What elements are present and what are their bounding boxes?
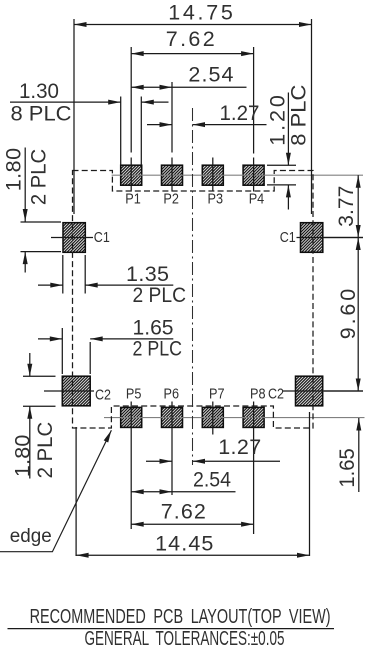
svg-text:P8: P8	[250, 387, 266, 403]
dimension line 1.80 top	[24, 148, 26, 222]
svg-text:9.60: 9.60	[336, 289, 360, 339]
svg-text:8 PLC: 8 PLC	[286, 85, 310, 146]
dimension tail 1.65 left	[38, 338, 62, 340]
PCB cutout edge outline (dashed)	[73, 171, 314, 429]
wire C1 left pad centerline tick	[51, 237, 93, 239]
extension tick C1 right center	[324, 237, 363, 239]
pad C1 left	[63, 223, 85, 253]
arrowhead 1.35 right (outside)	[85, 283, 98, 288]
svg-text:P1: P1	[125, 192, 141, 208]
svg-text:3.77: 3.77	[334, 186, 358, 227]
pad C2 right	[296, 376, 323, 406]
dimension line 7.62 top	[131, 53, 253, 55]
arrowhead 2.54 top right	[160, 85, 173, 90]
wire top pad row centerline y=175	[112, 174, 363, 176]
pad P6	[162, 407, 183, 427]
svg-text:14.75: 14.75	[168, 0, 233, 24]
pad P5	[121, 407, 142, 427]
arrowhead 1.27 bottom right (outside)	[193, 459, 206, 464]
extension line left board edge (14.75)	[73, 19, 75, 214]
wire pin P3 vertical centerline	[212, 158, 214, 192]
extension line C2 left center (14.45)	[75, 427, 77, 556]
dimension line 14.45	[76, 554, 309, 556]
arrowhead 14.45 right	[297, 553, 310, 558]
svg-text:P7: P7	[209, 387, 225, 403]
leader line for edge label	[0, 430, 111, 552]
dimension line 3.77	[357, 175, 359, 237]
arrowhead 7.62 top right	[241, 51, 254, 56]
arrowhead 1.20 lower (outside)	[286, 185, 291, 198]
svg-text:P4: P4	[249, 192, 265, 208]
svg-text:2.54: 2.54	[188, 63, 233, 87]
svg-text:1.65: 1.65	[335, 448, 359, 487]
extension tick pad bottom edge (1.20)	[267, 184, 296, 186]
pad C2 left	[62, 376, 90, 406]
extension line P1 left edge	[120, 97, 122, 166]
svg-text:1.27: 1.27	[218, 435, 261, 459]
svg-text:edge: edge	[10, 526, 52, 547]
arrowhead 2.54 bottom right	[160, 489, 173, 494]
svg-text:2.54: 2.54	[193, 468, 231, 492]
svg-text:C2: C2	[95, 388, 111, 404]
wire C2 left pad centerline tick	[44, 390, 94, 392]
svg-text:2 PLC: 2 PLC	[133, 283, 187, 307]
svg-text:2 PLC: 2 PLC	[133, 337, 183, 361]
arrowhead 7.62 bottom left	[131, 522, 144, 527]
arrowhead 1.35 left (outside)	[50, 283, 63, 288]
svg-text:2 PLC: 2 PLC	[26, 149, 50, 205]
svg-text:C1: C1	[94, 230, 110, 246]
svg-text:GENERAL TOLERANCES:±0.05: GENERAL TOLERANCES:±0.05	[85, 628, 285, 650]
extension line C2 right edge (above)	[89, 342, 91, 374]
arrowhead 14.75 left	[74, 22, 87, 27]
arrowhead 14.45 left	[76, 553, 89, 558]
svg-text:1.80: 1.80	[10, 435, 34, 478]
svg-text:P6: P6	[164, 387, 180, 403]
extension tick C2 right center	[324, 390, 363, 392]
extension line C1 left edge (below)	[62, 255, 64, 294]
extension line P1 right edge	[140, 97, 142, 166]
svg-text:C1: C1	[280, 230, 296, 246]
pad P4	[243, 165, 264, 185]
svg-text:14.45: 14.45	[155, 532, 213, 556]
arrowhead 1.27 top right (outside)	[193, 122, 206, 127]
extension line C2 right center (14.45)	[309, 412, 311, 556]
arrowhead 9.60 top	[356, 238, 361, 251]
dimension tail 1.27 bottom left	[146, 460, 172, 462]
svg-text:P5: P5	[126, 387, 141, 403]
arrowhead 1.80 top lower	[23, 252, 28, 265]
arrowhead 3.77 top	[356, 175, 361, 188]
dimension line 14.75	[74, 24, 312, 26]
arrowhead 7.62 bottom right	[241, 522, 254, 527]
pad C1 right	[301, 223, 323, 253]
wire C2 right pad centerline tick	[283, 390, 363, 392]
arrowhead 1.20 upper (outside)	[286, 153, 291, 166]
extension line right board edge (14.75)	[311, 19, 313, 214]
wire pin P5 vertical centerline / extension	[130, 402, 132, 530]
pad P3	[202, 165, 223, 185]
arrowhead 1.30 left (outside)	[108, 100, 121, 105]
dimension tail 1.30 right	[141, 101, 168, 103]
arrowhead 14.75 right	[299, 22, 312, 27]
dimension line 1.27 bottom right	[193, 460, 281, 462]
vertical centerline (dash-dot)	[192, 108, 194, 465]
wire pin P2 vertical centerline	[171, 158, 173, 192]
svg-text:1.80: 1.80	[2, 148, 26, 191]
extension tick C1 bottom edge	[21, 251, 62, 253]
pad P7	[202, 407, 223, 427]
dimension line 9.60	[357, 238, 359, 392]
extension tick pad top edge (1.20)	[267, 164, 296, 166]
dimension/leader line 1.30	[10, 101, 121, 103]
dimension line 2.54 top	[131, 86, 246, 88]
dimension line 1.65 right	[90, 338, 173, 340]
extension line C1 right edge (below)	[84, 255, 86, 294]
wire pin P6 vertical centerline / extension	[171, 402, 173, 496]
dimension line 1.27 top right	[193, 124, 267, 126]
arrowhead edge leader	[104, 430, 112, 442]
wire C1 right pad centerline tick	[297, 237, 364, 239]
wire pin P7 vertical centerline / extension	[212, 402, 214, 435]
svg-text:1.27: 1.27	[220, 101, 260, 125]
arrowhead 1.30 right (outside)	[141, 100, 154, 105]
wire pin P4 vertical centerline	[253, 158, 255, 192]
svg-text:2 PLC: 2 PLC	[33, 422, 57, 479]
pad P2	[162, 165, 183, 185]
dimension line 2.54 bottom	[131, 491, 235, 493]
svg-text:C2: C2	[268, 387, 284, 403]
arrowhead 1.80 top upper	[23, 209, 28, 222]
title underline	[8, 628, 335, 630]
arrowhead 3.77 bottom	[356, 225, 361, 238]
dimension tail 1.20 lower	[287, 185, 289, 210]
arrowhead 1.65 right (outside)	[90, 336, 103, 341]
arrowhead 1.80 bottom lower	[27, 406, 32, 419]
extension tick C2 top edge	[23, 375, 56, 377]
extension line C2 left edge (above)	[61, 328, 63, 374]
arrowhead 7.62 top left	[131, 51, 144, 56]
wire pin P8 vertical centerline / extension	[253, 402, 255, 535]
arrowhead 2.54 bottom left	[131, 489, 144, 494]
extension line P2 center (top)	[171, 82, 173, 153]
arrowhead 1.27 bottom left (outside)	[160, 459, 173, 464]
extension line P4 center (top)	[253, 47, 255, 154]
svg-text:RECOMMENDED PCB LAYOUT(TOP VIE: RECOMMENDED PCB LAYOUT(TOP VIEW)	[30, 606, 331, 628]
svg-text:P3: P3	[208, 192, 224, 208]
wire bottom pad row centerline y=417.6	[104, 417, 365, 419]
arrowhead 9.60 bottom	[356, 379, 361, 392]
extension tick C2 bottom edge	[23, 405, 56, 407]
dimension tail 1.27 top left	[147, 124, 172, 126]
pad P8	[243, 407, 264, 427]
svg-text:7.62: 7.62	[161, 500, 206, 524]
arrowhead 1.65 right upper	[356, 418, 361, 431]
dimension tail 1.80 top lower	[24, 252, 26, 273]
pad P1	[121, 165, 142, 185]
dimension line 1.65 right	[358, 418, 360, 492]
dimension line 7.62 bottom	[131, 523, 253, 525]
dimension line 1.20	[287, 93, 289, 166]
dimension tail 1.35 left	[38, 284, 63, 286]
dimension tail 1.80 bottom upper	[29, 353, 31, 376]
svg-text:8 PLC: 8 PLC	[11, 102, 72, 126]
arrowhead 1.27 top left (outside)	[160, 122, 173, 127]
arrowhead 2.54 top left	[131, 85, 144, 90]
dimension line 1.80 bottom	[29, 406, 31, 478]
svg-text:1.30: 1.30	[19, 79, 59, 103]
svg-text:7.62: 7.62	[166, 27, 215, 51]
dimension line 1.35 right	[85, 284, 173, 286]
arrowhead 1.80 bottom upper	[27, 364, 32, 377]
extension tick C1 top edge	[21, 221, 62, 223]
svg-text:P2: P2	[163, 192, 179, 208]
arrowhead 1.65 left (outside)	[50, 336, 63, 341]
wire pin P1 vertical centerline	[130, 158, 132, 192]
extension line P1 center (top)	[130, 47, 132, 153]
